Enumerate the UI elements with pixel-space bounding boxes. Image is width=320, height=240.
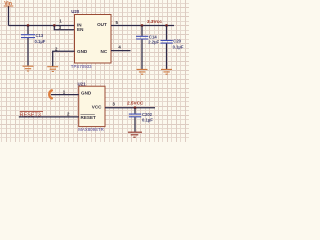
wire: U20 pin 5 (OUT) to 3.3Vcc rail bbox=[111, 25, 174, 27]
capacitor C20 bbox=[161, 26, 184, 70]
svg-text:0.1µF: 0.1µF bbox=[173, 44, 184, 49]
wire: U20 pin 2 (GND) to ground bbox=[53, 51, 75, 66]
svg-text:U21: U21 bbox=[78, 81, 87, 86]
junction: rail / C13 branch bbox=[27, 24, 30, 27]
svg-text:0.1µF: 0.1µF bbox=[142, 118, 153, 123]
svg-text:0.1µF: 0.1µF bbox=[35, 39, 46, 44]
wire: branch to U20 pin 3 (EN) bbox=[54, 26, 74, 30]
svg-text:OUT: OUT bbox=[97, 22, 107, 27]
junction: OUT rail / C14 branch bbox=[141, 24, 144, 27]
svg-text:GND: GND bbox=[77, 49, 88, 54]
svg-text:GND: GND bbox=[81, 90, 92, 95]
svg-text:TPS70933: TPS70933 bbox=[71, 64, 92, 69]
svg-text:2.2µF: 2.2µF bbox=[148, 40, 159, 45]
svg-text:RESET: RESET bbox=[81, 115, 97, 120]
capacitor C202 bbox=[129, 108, 153, 132]
net label RESET3 bbox=[20, 112, 43, 119]
svg-text:C20: C20 bbox=[173, 39, 181, 44]
ground (C13) bbox=[23, 66, 34, 71]
power port Vin bbox=[4, 1, 14, 26]
power symbol (arc) at U21 pin 1 bbox=[49, 90, 52, 98]
svg-text:C13: C13 bbox=[36, 33, 44, 38]
ground (U20 GND) bbox=[47, 67, 58, 72]
svg-text:VCC: VCC bbox=[92, 104, 102, 109]
capacitor C13 bbox=[21, 26, 46, 66]
wire: RESET3 net to U21 pin 2 bbox=[19, 116, 79, 118]
junction: VCC wire / C202 branch bbox=[134, 106, 137, 109]
capacitor C14 bbox=[136, 26, 160, 70]
grid minor bbox=[0, 0, 189, 142]
IC U20 TPS70933 regulator bbox=[71, 9, 111, 69]
ground (C20) bbox=[161, 69, 172, 74]
svg-text:MAX809STR: MAX809STR bbox=[78, 127, 104, 132]
svg-text:3.3Vcc: 3.3Vcc bbox=[147, 19, 162, 24]
junction: rail / EN branch bbox=[53, 24, 56, 27]
IC U21 MAX809STR supervisor bbox=[78, 81, 106, 132]
svg-text:C202: C202 bbox=[142, 112, 153, 117]
wire: U21 pin 3 (VCC) to 2.5VCC bbox=[105, 107, 155, 109]
ground (C14) bbox=[137, 69, 148, 74]
junction: OUT rail / C20 branch bbox=[165, 24, 168, 27]
wire: U20 pin 4 (NC) stub bbox=[111, 50, 131, 52]
grid major bbox=[0, 0, 189, 142]
svg-text:EN: EN bbox=[77, 27, 84, 32]
svg-text:2.5VCC: 2.5VCC bbox=[127, 101, 144, 106]
wire: Vin rail to U20 pin 1 bbox=[9, 25, 75, 27]
svg-text:U20: U20 bbox=[71, 9, 80, 14]
svg-text:NC: NC bbox=[101, 49, 108, 54]
wire: U21 pin 1 (GND) stub bbox=[51, 94, 79, 96]
ground (C202) bbox=[128, 132, 142, 137]
